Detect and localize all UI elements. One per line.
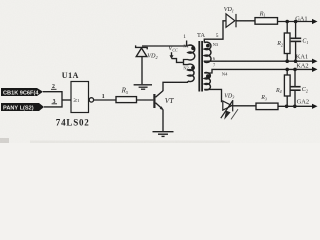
- N2 polarity dot: [191, 66, 195, 70]
- GA2 rail: [278, 105, 312, 107]
- wire N3 top to VD1: [204, 21, 226, 43]
- wire N4 bottom to VD3: [204, 89, 221, 102]
- pin 2 underline: [51, 88, 57, 90]
- secondary winding N3: [204, 42, 211, 62]
- wire tap to N1 bottom: [184, 60, 189, 63]
- wire N3 bottom / KA1 rail: [204, 60, 312, 63]
- N4 polarity dot: [206, 74, 210, 78]
- ground (zener): [134, 85, 152, 89]
- N3 polarity dot: [206, 44, 210, 48]
- wire Vcc to winding center tap: [172, 59, 184, 63]
- secondary winding N4: [204, 73, 210, 90]
- diode VD1: [226, 14, 236, 27]
- scan noise overlay: [0, 0, 1, 1]
- terminal flag GA1: [312, 19, 318, 24]
- resistor R2 (vertical): [284, 22, 290, 62]
- junction dots GA1 rail: [285, 20, 289, 24]
- pin 3 underline: [52, 103, 57, 105]
- wire node to gate input: [62, 99, 71, 101]
- transformer core: [199, 41, 202, 92]
- ground (emitter): [153, 132, 174, 137]
- Vcc arrow terminal: [170, 52, 174, 59]
- wire N2 bottom stub: [187, 81, 189, 82]
- resistor R4 (vertical): [284, 69, 290, 106]
- wire gate output: [94, 99, 116, 101]
- wire N4 top / KA2 rail: [204, 69, 312, 73]
- N1 polarity dot: [191, 46, 195, 50]
- terminal flag KA2: [312, 67, 318, 72]
- terminal flag GA2: [312, 104, 318, 109]
- input flag X1 (pulse input): [1, 88, 43, 96]
- terminal flag KA1: [312, 59, 318, 64]
- primary winding N1: [188, 45, 195, 60]
- wire emitter to ground: [162, 109, 164, 131]
- resistor R3: [256, 103, 278, 110]
- diode VD3: [221, 100, 238, 120]
- gate output bubble: [89, 98, 93, 102]
- GA1 rail: [278, 21, 313, 23]
- winding N2: [188, 64, 194, 81]
- capacitor C2: [290, 69, 301, 106]
- wire zener to winding N1 top: [142, 45, 188, 47]
- pin 1 stub: [186, 41, 188, 47]
- junction dots KA2 rail: [285, 68, 289, 72]
- capacitor C1: [291, 22, 302, 62]
- transistor VT: [153, 91, 163, 110]
- junction dots KA1 rail: [285, 59, 289, 63]
- input flag X2 (blocking input): [1, 103, 44, 112]
- resistor R5 (base): [116, 97, 137, 103]
- wire tap to N2 top: [184, 62, 189, 64]
- wire flag1 to node: [43, 92, 62, 107]
- bottom-left smudge: [0, 138, 9, 143]
- wire VD1 to R1: [236, 20, 255, 22]
- junction dots GA2 rail: [285, 105, 289, 109]
- wire VD3 to R3: [233, 105, 256, 107]
- wire R5 to base: [137, 99, 154, 101]
- resistor R1: [255, 18, 278, 25]
- zener diode VD2: [136, 45, 148, 84]
- NOR gate U1A body: [71, 82, 89, 113]
- wire collector to winding N2: [163, 82, 188, 91]
